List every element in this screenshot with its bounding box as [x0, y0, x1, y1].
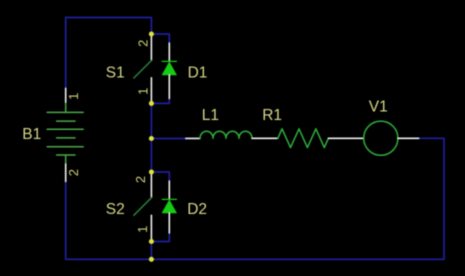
switch S1	[134, 34, 152, 103]
pin left of L1	[186, 137, 200, 139]
B1 top stub	[65, 102, 67, 112]
junction node S2 bottom	[149, 239, 154, 244]
B1 plate long 3	[47, 146, 83, 148]
junction node bottom rail	[149, 257, 154, 262]
switch S2	[134, 172, 152, 242]
D1 anode pin	[168, 75, 170, 99]
svg-text:V1: V1	[369, 99, 388, 116]
pin 2 of B1	[65, 164, 67, 181]
D1 cathode bar	[162, 60, 176, 62]
D2 cathode bar	[162, 198, 176, 200]
junction node S1 bottom	[149, 101, 154, 106]
diode D1	[162, 43, 176, 99]
D2 triangle	[162, 200, 176, 213]
B1 plate short 2	[57, 137, 75, 139]
wire mid node to S2 top	[150, 139, 152, 173]
wire L1 to R1	[252, 137, 278, 139]
svg-text:D1: D1	[188, 64, 208, 81]
B1 plate short 3	[57, 154, 75, 156]
svg-text:R1: R1	[262, 107, 282, 124]
wire S2 bottom to bottom rail	[150, 242, 152, 260]
pin 2 of S2	[150, 172, 152, 198]
svg-text:B1: B1	[22, 126, 41, 143]
D2 anode pin	[168, 213, 170, 233]
D1 triangle	[162, 62, 176, 75]
battery B1	[47, 102, 83, 164]
wire R1 to V1	[328, 137, 363, 139]
svg-text:S2: S2	[106, 201, 125, 218]
wire S1 bottom to mid node	[150, 103, 152, 138]
pin right of V1	[398, 137, 419, 139]
junction node S2 top	[149, 169, 154, 174]
S2 lever	[134, 198, 152, 216]
wire battery bottom to bottom rail	[66, 182, 152, 260]
resistor R1	[278, 129, 329, 148]
B1 plate long 1	[47, 111, 83, 113]
junction node mid output	[149, 136, 154, 141]
pin 1 of S1	[150, 78, 152, 103]
wire bottom rail to V1 right	[151, 138, 444, 259]
D1 cathode pin	[168, 43, 170, 61]
S1 lever	[134, 61, 152, 79]
inductor L1	[200, 131, 252, 138]
pin 1 of S2	[150, 215, 152, 241]
svg-text:1: 1	[135, 226, 150, 233]
B1 plate short 1	[57, 120, 75, 122]
svg-text:2: 2	[133, 176, 148, 183]
svg-text:1: 1	[135, 88, 150, 95]
B1 bottom stub	[65, 155, 67, 164]
junction node S1 top	[149, 31, 154, 36]
wire mid node to L1	[151, 138, 185, 140]
wire D1 anode branch	[151, 98, 169, 103]
svg-text:2: 2	[66, 169, 81, 176]
wire D2 anode branch	[151, 233, 169, 242]
svg-text:1: 1	[66, 93, 81, 100]
diode D2	[162, 181, 176, 233]
svg-text:L1: L1	[202, 107, 219, 124]
svg-text:S1: S1	[106, 64, 125, 81]
wire battery top to S1 top	[66, 18, 152, 89]
svg-text:2: 2	[135, 40, 150, 47]
pin 2 of S1	[150, 34, 152, 61]
wire D1 cathode branch	[151, 34, 169, 43]
D2 cathode pin	[168, 181, 170, 199]
pin 1 of B1	[65, 88, 67, 102]
svg-text:D2: D2	[187, 201, 207, 218]
wire D2 cathode branch	[151, 172, 169, 181]
source V1	[364, 121, 398, 155]
B1 plate long 2	[47, 128, 83, 130]
